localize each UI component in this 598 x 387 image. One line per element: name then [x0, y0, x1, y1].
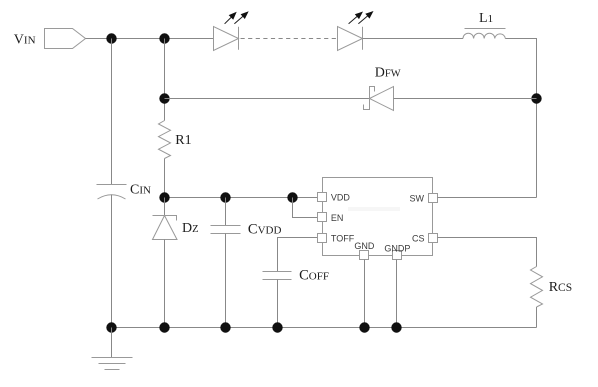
wire R1 bottom to VDD rail: [164, 159, 166, 198]
svg-text:TOFF: TOFF: [331, 233, 355, 243]
wire VIN terminal to LED anode (top rail): [86, 38, 214, 40]
junction COFF/ground rail: [272, 322, 282, 332]
wire DFW cathode row (right segment): [394, 98, 537, 100]
LED D2: [338, 27, 363, 51]
junction SW/DFW node: [531, 93, 541, 103]
junction VIN/R1 branch node: [159, 33, 169, 43]
LED D1: [214, 27, 239, 51]
junction GND pin/ground rail: [359, 322, 369, 332]
resistor RCS: [531, 267, 543, 308]
svg-text:DZ: DZ: [182, 221, 199, 236]
wire COFF bottom to ground rail: [277, 280, 279, 328]
pin CS: [429, 234, 438, 243]
VIN input terminal: [45, 29, 86, 49]
wire SW to switch node: [438, 197, 537, 199]
svg-text:CVDD: CVDD: [248, 221, 282, 237]
junction GNDP pin/ground rail: [391, 322, 401, 332]
capacitor CVDD: [211, 225, 241, 227]
op-amp U1 body (LED driver IC): [323, 178, 433, 256]
pin VDD: [318, 193, 327, 202]
junction CVDD/VDD rail: [220, 192, 230, 202]
wire CIN top (VIN column): [111, 39, 113, 185]
wire LED D2 cathode to L1: [363, 38, 464, 40]
svg-text:EN: EN: [331, 213, 344, 223]
pin GNDP: [393, 251, 402, 260]
wire CS to RCS top: [438, 238, 537, 267]
svg-text:GNDP: GNDP: [384, 244, 410, 254]
junction R1/Dz/VDD rail: [159, 192, 169, 202]
svg-text:GND: GND: [354, 241, 375, 251]
inductor L1: [465, 28, 506, 30]
wire CIN bottom to ground rail: [111, 195, 113, 328]
wire Dz top: [164, 198, 166, 216]
junction VIN/CIN node: [106, 33, 116, 43]
svg-text:DFW: DFW: [375, 65, 401, 80]
svg-text:VDD: VDD: [331, 193, 351, 203]
wire L1 to SW node (right vertical): [505, 39, 536, 198]
svg-text:COFF: COFF: [299, 268, 329, 284]
junction R1/DFW anode node: [159, 93, 169, 103]
wire CVDD bottom to ground rail: [225, 234, 227, 328]
junction EN branch/VDD rail: [287, 192, 297, 202]
capacitor COFF: [263, 271, 292, 273]
capacitor CIN (polarized): [97, 184, 127, 186]
junction CVDD/ground rail: [220, 322, 230, 332]
wire CVDD top: [225, 198, 227, 226]
wire RCS bottom to ground rail: [536, 307, 538, 328]
diode DFW (schottky freewheel): [370, 87, 394, 111]
resistor R1: [159, 121, 171, 159]
pin TOFF: [318, 234, 327, 243]
junction Dz/ground rail: [159, 322, 169, 332]
wire DFW anode row (left segment): [165, 98, 370, 100]
svg-text:RCS: RCS: [549, 280, 572, 295]
wire GND pin to ground rail: [364, 260, 366, 328]
svg-text:CS: CS: [412, 233, 425, 243]
svg-text:CIN: CIN: [130, 183, 151, 198]
wire GNDP pin to ground rail: [396, 260, 398, 328]
pin SW: [429, 194, 438, 203]
wire VDD rail: [165, 197, 318, 199]
wire ground rail (bottom): [112, 327, 537, 329]
zener diode Dz: [153, 216, 177, 221]
junction CIN/ground rail: [106, 322, 116, 332]
wire R1 top branch (VIN column): [164, 39, 166, 121]
wire EN branch: [293, 198, 318, 218]
wire dashed LED string continuation: [241, 38, 338, 40]
svg-text:L1: L1: [479, 11, 493, 26]
wire TOFF to COFF: [278, 238, 318, 272]
svg-text:SW: SW: [410, 194, 425, 204]
svg-text:R1: R1: [175, 133, 191, 148]
ground: [111, 328, 113, 358]
pin GND: [360, 251, 369, 260]
svg-text:VIN: VIN: [14, 33, 36, 48]
wire Dz bottom to ground rail: [164, 240, 166, 328]
pin EN: [318, 213, 327, 222]
